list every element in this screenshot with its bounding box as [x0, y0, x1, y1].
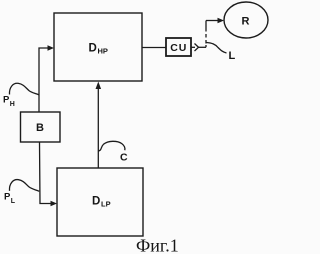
leader L	[207, 43, 227, 54]
wire to receiver	[206, 20, 220, 22]
arrow into R	[218, 18, 225, 23]
svg-text:LP: LP	[101, 200, 111, 209]
label P_L	[4, 192, 16, 205]
svg-text:CU: CU	[170, 42, 187, 54]
wire D_LP up to D_HP	[97, 87, 99, 168]
svg-text:L: L	[11, 198, 16, 205]
svg-text:Фиг.1: Фиг.1	[136, 236, 179, 254]
svg-text:D: D	[92, 196, 100, 208]
leader C	[98, 141, 125, 151]
wire D_HP to CU	[142, 47, 166, 49]
svg-text:H: H	[10, 101, 15, 108]
dashed antenna feed line	[205, 21, 207, 48]
arrow into D_HP left	[48, 45, 55, 50]
svg-text:D: D	[89, 43, 97, 55]
label D_HP	[89, 43, 108, 56]
svg-text:B: B	[36, 122, 44, 134]
wire B down to D_LP	[40, 142, 53, 204]
leader P_L	[9, 180, 39, 192]
label P_H	[3, 95, 15, 108]
block D_HP	[54, 13, 142, 81]
arrow into D_LP left	[51, 201, 58, 206]
block CU	[166, 38, 191, 56]
wire CU output with open arrowhead	[191, 46, 195, 48]
receiver R ellipse	[224, 2, 268, 38]
leader P_H	[9, 83, 39, 95]
svg-text:HP: HP	[98, 47, 108, 56]
svg-text:R: R	[242, 16, 250, 28]
svg-text:L: L	[229, 50, 236, 62]
block B	[21, 112, 61, 142]
arrow into D_HP bottom	[96, 82, 102, 90]
label D_LP	[92, 196, 111, 209]
svg-text:C: C	[120, 152, 128, 164]
block D_LP	[57, 168, 143, 236]
wire B up to D_HP	[39, 48, 49, 112]
